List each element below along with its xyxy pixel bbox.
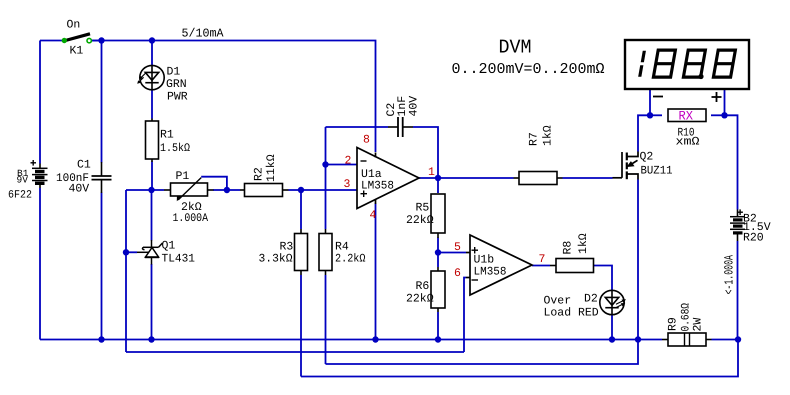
- wire left battery rail top: [39, 41, 41, 164]
- svg-text:DVM: DVM: [499, 37, 532, 59]
- wire DVM minus lead: [649, 90, 651, 116]
- DVM display: [625, 40, 749, 89]
- junction node P1 wiper: [224, 187, 230, 193]
- wire node x126 down: [125, 190, 127, 352]
- resistor R8: [556, 259, 594, 273]
- wire Q2 source down: [637, 180, 639, 340]
- svg-text:R2: R2: [253, 167, 266, 181]
- resistor R3: [295, 234, 308, 271]
- resistor R2: [245, 184, 283, 197]
- resistor R9: [662, 333, 712, 346]
- wire R5 top lead: [437, 178, 439, 193]
- wire U1b out to R8: [532, 265, 550, 267]
- MOSFET Q2 BUZ11: [613, 152, 639, 180]
- wire R3 bottom to rail4: [300, 275, 302, 377]
- resistor R4: [319, 234, 332, 271]
- svg-text:1kΩ: 1kΩ: [542, 125, 555, 146]
- capacitor C2: [388, 117, 413, 137]
- battery B1: [31, 160, 48, 188]
- wire D1 branch top: [151, 41, 153, 66]
- wire R6 bottom: [437, 312, 439, 340]
- junction node top rail / C1: [98, 37, 104, 43]
- wire P1 wiper to node: [201, 177, 227, 190]
- svg-text:R5: R5: [416, 202, 430, 215]
- wire Q1 anode top: [151, 190, 153, 241]
- junction node Q1 ref: [123, 249, 129, 255]
- wire feedback top right: [413, 127, 438, 178]
- resistor R6: [431, 271, 445, 308]
- capacitor C1: [92, 162, 112, 193]
- wire R4 bottom to rail3: [325, 275, 327, 364]
- resistor R5: [431, 194, 445, 233]
- svg-text:Q1: Q1: [162, 240, 176, 253]
- wire bottom rail 1: [40, 339, 638, 341]
- switch K1: [62, 34, 102, 43]
- op-amp U1a: [357, 148, 419, 209]
- junction node R9 right / B2 / rail4: [735, 336, 741, 342]
- wire DVM plus lead: [724, 90, 726, 116]
- wire D2 bottom: [611, 315, 613, 340]
- svg-text:22kΩ: 22kΩ: [406, 293, 434, 306]
- wire Q1 ref: [126, 251, 137, 253]
- svg-text:PWR: PWR: [167, 91, 188, 104]
- potentiometer P1: [164, 178, 214, 202]
- wire rail 4: [301, 340, 738, 377]
- wire rail y190 left: [126, 189, 164, 191]
- wire pin6 riser: [464, 278, 466, 353]
- svg-text:40V: 40V: [69, 183, 90, 196]
- svg-text:5: 5: [454, 241, 461, 254]
- wire top rail 5/10mA: [89, 41, 376, 153]
- resistor R7: [519, 172, 557, 185]
- svg-text:11kΩ: 11kΩ: [265, 154, 278, 182]
- junction node rail1/C1: [98, 336, 104, 342]
- svg-text:R8: R8: [562, 241, 575, 255]
- junction node pin2/feedback: [322, 161, 328, 167]
- svg-text:TL431: TL431: [162, 253, 196, 266]
- wire R9 left lead: [638, 339, 662, 341]
- svg-text:On: On: [67, 19, 81, 32]
- svg-text:3: 3: [344, 178, 351, 191]
- wire output to R7: [419, 177, 514, 179]
- svg-text:2W: 2W: [692, 318, 705, 332]
- label DVM plus terminal: [712, 92, 722, 102]
- junction node output pin1: [435, 175, 441, 181]
- svg-text:BUZ11: BUZ11: [641, 165, 673, 178]
- wire Q2 drain riser: [638, 115, 650, 151]
- junction node pin5/R5/R6: [435, 249, 441, 255]
- svg-text:1kΩ: 1kΩ: [577, 233, 590, 254]
- svg-text:Load RED: Load RED: [544, 307, 599, 320]
- wire R8 output to D2: [594, 266, 613, 291]
- wire top rail left stub: [40, 40, 64, 42]
- svg-text:7: 7: [539, 253, 546, 266]
- LED D1: [137, 65, 164, 90]
- svg-text:6F22: 6F22: [8, 190, 32, 202]
- 7seg decimal point: [698, 74, 703, 79]
- svg-text:Q2: Q2: [640, 151, 654, 164]
- svg-text:K1: K1: [70, 45, 84, 58]
- svg-text:R7: R7: [528, 132, 541, 146]
- junction node rail1/pin4: [372, 336, 378, 342]
- junction node RX right / DVM+: [721, 112, 727, 118]
- wire RX left lead: [650, 114, 662, 116]
- svg-text:D2: D2: [584, 293, 598, 306]
- junction node top rail / D1: [149, 37, 155, 43]
- 7seg digit 8 (2nd): [683, 50, 705, 77]
- svg-text:9V: 9V: [17, 175, 29, 186]
- wire rail y190 R2 to pin3: [289, 189, 358, 191]
- wire rail y190 P1 to R2: [213, 189, 240, 191]
- resistor R1: [146, 121, 159, 159]
- wire R7 to Q2 gate: [563, 177, 613, 179]
- junction node rail1/R6: [435, 336, 441, 342]
- svg-text:2.2kΩ: 2.2kΩ: [335, 253, 366, 266]
- svg-text:5/10mA: 5/10mA: [182, 27, 225, 41]
- svg-text:R9: R9: [667, 317, 680, 331]
- junction node rail1/R9 left: [635, 336, 641, 342]
- junction node rail1/Q1: [148, 336, 154, 342]
- wire R9 right lead: [712, 339, 739, 341]
- svg-text:C1: C1: [77, 159, 91, 172]
- wire RX node to right rail: [725, 115, 738, 209]
- LED D2: [600, 290, 626, 314]
- wire Q1 cathode bottom: [151, 264, 153, 340]
- junction node R1/P1/Q1: [148, 187, 154, 193]
- wire feedback top left: [326, 126, 389, 128]
- svg-text:P1: P1: [176, 170, 190, 183]
- wire rail 2: [126, 351, 464, 353]
- svg-text:2: 2: [345, 155, 352, 168]
- 7seg digit 8 (3rd): [713, 50, 735, 77]
- wire C1 branch upper: [101, 41, 103, 163]
- wire B2 bottom to R9 node: [737, 241, 739, 340]
- shunt regulator Q1 TL431: [137, 240, 163, 265]
- wire pin5 lead: [438, 252, 466, 254]
- wire pin2 lead: [326, 164, 358, 166]
- resistor RX: [668, 109, 706, 122]
- wire R6 top lead: [437, 253, 439, 268]
- junction node R2/R3/pin3: [298, 187, 304, 193]
- op-amp U1b: [466, 235, 532, 295]
- svg-text:GRN: GRN: [166, 78, 187, 91]
- wire R3 top lead: [300, 190, 302, 229]
- wire RX right lead: [711, 114, 725, 116]
- svg-text:22kΩ: 22kΩ: [406, 214, 434, 227]
- junction node RX left / DVM- / Q2 drain: [647, 112, 653, 118]
- svg-text:3.3kΩ: 3.3kΩ: [259, 253, 293, 266]
- wire pin2 vertical to R4: [325, 127, 327, 229]
- svg-text:R20: R20: [743, 232, 764, 245]
- wire left battery rail bottom: [39, 188, 41, 340]
- svg-text:R6: R6: [416, 280, 430, 293]
- svg-text:LM358: LM358: [474, 266, 507, 279]
- wire rail 3: [326, 340, 639, 365]
- junction node rail1/D2: [609, 336, 615, 342]
- svg-text:40V: 40V: [408, 96, 421, 117]
- svg-text:D1: D1: [167, 66, 181, 79]
- 7seg digit 8 (1st): [653, 50, 675, 77]
- svg-text:RX: RX: [679, 109, 694, 124]
- svg-text:1: 1: [428, 166, 435, 179]
- svg-text:0..200mV=0..200mΩ: 0..200mV=0..200mΩ: [452, 61, 605, 78]
- svg-text:R1: R1: [160, 129, 174, 142]
- svg-text:4: 4: [370, 209, 377, 222]
- svg-text:LM358: LM358: [361, 180, 394, 193]
- 7seg digit 1: [640, 51, 645, 77]
- svg-text:xmΩ: xmΩ: [676, 136, 700, 149]
- svg-text:1.000A: 1.000A: [173, 212, 209, 225]
- svg-text:6: 6: [454, 267, 461, 280]
- wire pin4 down: [375, 204, 377, 340]
- label DVM minus terminal: [653, 96, 663, 98]
- battery B2: [730, 209, 745, 241]
- wire R1 to node: [151, 162, 153, 191]
- svg-text:<-1.000A: <-1.000A: [723, 255, 737, 295]
- wire R5 bottom to pin5 node: [437, 238, 439, 253]
- wire D1 to R1: [151, 90, 153, 119]
- svg-text:1.5kΩ: 1.5kΩ: [160, 142, 190, 155]
- wire C1 branch lower: [101, 193, 103, 340]
- svg-text:8: 8: [363, 134, 370, 147]
